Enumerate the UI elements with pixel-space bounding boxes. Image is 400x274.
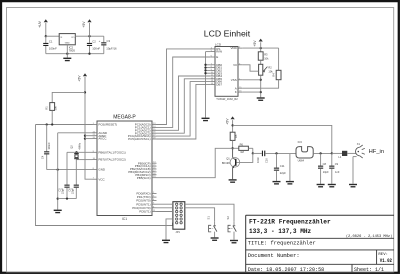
wire AVCC: [85, 138, 93, 140]
svg-text:LCD Einheit: LCD Einheit: [204, 29, 251, 39]
svg-text:22pF: 22pF: [280, 171, 286, 175]
node ground rail regulator: [66, 53, 68, 55]
svg-text:100nF: 100nF: [92, 47, 100, 51]
wire header to S2: [185, 204, 234, 222]
svg-text:100nF: 100nF: [49, 47, 57, 51]
capacitor C11: [274, 153, 286, 181]
svg-text:AVCC: AVCC: [98, 137, 107, 141]
resistor R5: [230, 132, 238, 148]
ground (power supply): [63, 58, 71, 62]
node +5V R1 tap: [84, 91, 86, 93]
ground (Q1 emitter): [229, 179, 237, 183]
svg-text:10k: 10k: [54, 106, 58, 111]
wire crystal gnd rail: [58, 198, 77, 200]
title block frame: [246, 215, 394, 272]
resistor R4 backlight: [271, 48, 281, 80]
svg-text:22pF: 22pF: [70, 188, 74, 194]
svg-text:Q1: Q1: [226, 156, 230, 160]
power symbol +5V (LCD): [253, 39, 263, 49]
wire regulator output rail: [75, 35, 104, 37]
wire trimmer to gnd: [260, 75, 262, 97]
svg-text:HF_in: HF_in: [369, 149, 384, 155]
node DB0 gnd: [204, 64, 206, 66]
ground (MCU): [54, 210, 62, 214]
node +5V AREF tap: [84, 135, 86, 137]
svg-text:PB6(XTAL1/TOSC1): PB6(XTAL1/TOSC1): [98, 150, 125, 154]
microcontroller right pins: [128, 123, 157, 214]
capacitor C9: [329, 153, 340, 183]
capacitor C4: [41, 125, 51, 170]
connector JP1 ISP header: [173, 202, 185, 234]
svg-text:X1: X1: [357, 142, 361, 146]
ground (header): [162, 240, 170, 244]
wire MCU PD4 to header: [157, 207, 173, 209]
node ground rail C2: [88, 53, 90, 55]
node reset C4: [46, 123, 48, 125]
svg-text:Sheet: 1/1: Sheet: 1/1: [354, 267, 384, 273]
node XTAL1 crystal: [75, 151, 77, 153]
node collector: [231, 147, 233, 149]
svg-text:C3: C3: [107, 39, 111, 43]
wire LCD bus DB6: [157, 82, 211, 137]
svg-text:VCC: VCC: [98, 177, 105, 181]
trimmer R2: [259, 64, 274, 75]
svg-text:10µF/16: 10µF/16: [106, 47, 117, 51]
svg-text:R3: R3: [264, 52, 268, 56]
wire header gnd: [166, 219, 173, 240]
wire base line: [237, 153, 253, 162]
svg-text:R4: R4: [271, 73, 275, 77]
ground (C9): [328, 184, 336, 188]
svg-text:S2: S2: [226, 216, 230, 220]
node C11 tap: [275, 152, 277, 154]
node +5V AVCC tap: [84, 137, 86, 139]
wire +UV to input rail: [45, 23, 47, 36]
svg-text:LCD: LCD: [215, 43, 222, 47]
svg-text:IC1: IC1: [122, 217, 127, 221]
ground (S1): [211, 237, 219, 241]
capacitor C2: [87, 36, 101, 54]
node output rail junction: [88, 35, 90, 37]
resistor R6 feedback: [233, 142, 253, 154]
ground (C8): [317, 184, 325, 188]
wire header to S1: [185, 208, 215, 222]
wire K to gnd: [243, 91, 261, 93]
svg-text:PB5(SCK): PB5(SCK): [137, 176, 151, 180]
svg-text:C4: C4: [41, 155, 45, 159]
svg-text:TITLE: frequenzzähler: TITLE: frequenzzähler: [248, 241, 316, 247]
wire power ground rail: [46, 53, 104, 55]
wire collector to MCU T1: [157, 148, 233, 177]
wire reset to ISP header: [36, 125, 173, 226]
node DB2 gnd: [204, 69, 206, 71]
wire LCD bus DB7: [157, 84, 211, 139]
power symbol +5V (MCU): [78, 73, 88, 81]
wire V0 to trimmer wiper: [243, 65, 259, 71]
wire VSS: [243, 79, 261, 81]
wire X1 shield to gnd: [353, 157, 357, 184]
svg-text:10nF: 10nF: [256, 157, 260, 163]
LCD module box: [215, 47, 238, 97]
svg-text:GND: GND: [98, 168, 106, 172]
wire +5V vertical to VCC: [85, 77, 93, 179]
svg-text:DB7: DB7: [216, 83, 222, 87]
resistor R1: [45, 92, 85, 124]
svg-text:VSS: VSS: [231, 78, 237, 82]
svg-text:Document Number:: Document Number:: [248, 253, 300, 259]
svg-text:FT-221R Frequenzzähler: FT-221R Frequenzzähler: [249, 218, 331, 225]
LCD right pins: [230, 46, 242, 94]
svg-text:V0: V0: [233, 63, 237, 67]
wire R4 to anode: [243, 80, 279, 89]
svg-text:PC6(/RESET): PC6(/RESET): [98, 123, 117, 127]
svg-text:PD5(T1): PD5(T1): [139, 210, 150, 214]
wire AGND net: [58, 133, 93, 210]
switch S1: [207, 216, 217, 238]
svg-text:K: K: [235, 90, 237, 94]
wire LCD R/W DB0-DB3 to gnd: [206, 52, 211, 118]
svg-text:133,3 - 137,3 MHz: 133,3 - 137,3 MHz: [249, 228, 312, 235]
svg-text:V1.02: V1.02: [380, 258, 392, 264]
svg-text:VDD: VDD: [230, 46, 237, 50]
svg-text:4MHz: 4MHz: [78, 142, 82, 149]
node gnd rail left: [57, 197, 59, 199]
wire MCU PD5 to header: [157, 211, 173, 213]
svg-text:TUXGR_16X2_R2: TUXGR_16X2_R2: [216, 97, 238, 101]
prescaler IC3 U664: [296, 140, 332, 162]
svg-text:1M: 1M: [240, 150, 244, 154]
svg-text:C9: C9: [335, 162, 339, 166]
svg-text:L1: L1: [338, 155, 341, 159]
svg-text:R1: R1: [45, 106, 49, 110]
svg-text:BF199: BF199: [222, 161, 230, 165]
wire RF bias rail: [233, 125, 332, 153]
svg-text:C2: C2: [92, 39, 96, 43]
node gnd rail C5: [66, 197, 68, 199]
svg-text:IC3: IC3: [298, 140, 303, 144]
wire AREF: [85, 135, 93, 137]
svg-text:+5V: +5V: [78, 75, 82, 82]
capacitor C8: [318, 153, 329, 183]
svg-text:22pF: 22pF: [60, 188, 64, 194]
svg-text:R/W: R/W: [216, 50, 222, 54]
inductor L1: [332, 151, 356, 159]
svg-text:JP1: JP1: [175, 230, 180, 234]
node DB3 gnd: [204, 72, 206, 74]
svg-text:1nF: 1nF: [335, 170, 340, 174]
svg-text:C11: C11: [280, 164, 285, 168]
wire to power ground: [66, 54, 68, 58]
svg-text:+5V: +5V: [82, 21, 86, 28]
capacitor C6: [67, 160, 79, 199]
svg-text:+UV: +UV: [38, 20, 42, 27]
ground (LCD contrast): [257, 97, 265, 101]
node C8 tap: [319, 152, 321, 154]
svg-text:+5V: +5V: [253, 40, 257, 47]
node RF rail: [231, 124, 233, 126]
svg-text:10pF: 10pF: [323, 170, 329, 174]
node reset R1: [51, 123, 53, 125]
microcontroller IC1 MEGA8-P box: [97, 121, 152, 216]
svg-text:R2: R2: [268, 66, 272, 70]
wire reset net: [36, 124, 93, 126]
node K junction: [260, 91, 262, 93]
transistor Q1 BF199: [222, 148, 240, 179]
wire VDD rail: [243, 47, 279, 49]
svg-text:S1: S1: [207, 216, 211, 220]
capacitor C1: [43, 36, 57, 54]
svg-text:10k: 10k: [268, 70, 273, 74]
svg-text:C8: C8: [323, 162, 327, 166]
node base junction: [252, 152, 254, 154]
node GND net vertical: [57, 168, 59, 170]
capacitor C5: [57, 185, 69, 199]
svg-text:PB7(XTAL2/TOSC2): PB7(XTAL2/TOSC2): [98, 158, 125, 162]
svg-text:+5V: +5V: [225, 118, 229, 125]
wire LCD bus RS: [157, 49, 211, 125]
svg-text:Date: 18.05.2007 17:20:58: Date: 18.05.2007 17:20:58: [248, 267, 324, 273]
wire regulator gnd pin: [66, 45, 68, 54]
wire GND net: [47, 169, 93, 171]
wire IC3 gnd stub: [289, 154, 291, 181]
svg-text:R5: R5: [234, 134, 238, 138]
svg-text:Q2: Q2: [69, 145, 73, 149]
svg-text:PC5(ADC5/SCL): PC5(ADC5/SCL): [128, 137, 151, 141]
switch S2: [226, 216, 236, 240]
crystal Q2: [69, 142, 81, 159]
LCD left pins: [210, 47, 222, 87]
capacitor C3 electrolytic: [99, 36, 117, 54]
svg-text:REV:: REV:: [378, 253, 388, 257]
ground (S2): [230, 240, 238, 244]
ground (IC3): [286, 181, 294, 185]
connector X1 HF_in: [355, 142, 364, 158]
wire LCD bus DB4: [157, 76, 211, 130]
wire LCD bus DB5: [157, 79, 211, 133]
voltage regulator IC2 7805: [59, 34, 75, 53]
ground (X1): [349, 184, 357, 188]
svg-text:+: +: [99, 39, 101, 43]
svg-text:10k: 10k: [264, 57, 269, 61]
svg-text:MEGA8-P: MEGA8-P: [113, 114, 136, 120]
node C9 tap: [331, 152, 333, 154]
power symbol +5V (regulator): [82, 19, 92, 36]
wire LCD bus E: [157, 57, 211, 127]
power symbol +5V (RF): [225, 116, 234, 132]
capacitor C10 series: [253, 151, 296, 163]
svg-text:100nF: 100nF: [47, 142, 51, 150]
wire input rail: [46, 35, 59, 37]
node input rail junction: [45, 35, 47, 37]
wire MCU PD3 to header: [157, 203, 173, 205]
wire XTAL2 net: [77, 158, 93, 161]
wire XTAL1 net: [67, 152, 93, 184]
ground (LCD data): [202, 118, 210, 122]
power symbol +UV: [38, 19, 48, 28]
svg-text:7805: 7805: [69, 48, 76, 52]
resistor R3: [258, 48, 269, 64]
node VDD +5V: [260, 47, 262, 49]
node DB1 gnd: [204, 66, 206, 68]
svg-text:(2,0826 - 2,1453 MHz): (2,0826 - 2,1453 MHz): [346, 234, 392, 239]
svg-text:C1: C1: [49, 39, 53, 43]
svg-text:R6: R6: [240, 142, 244, 146]
ground (C11): [273, 181, 281, 185]
microcontroller left pins: [93, 123, 126, 182]
svg-text:U664: U664: [298, 158, 305, 162]
svg-text:VO: VO: [71, 37, 74, 39]
svg-text:C10: C10: [265, 158, 269, 163]
svg-text:E: E: [216, 55, 218, 59]
node VSS junction: [260, 79, 262, 81]
